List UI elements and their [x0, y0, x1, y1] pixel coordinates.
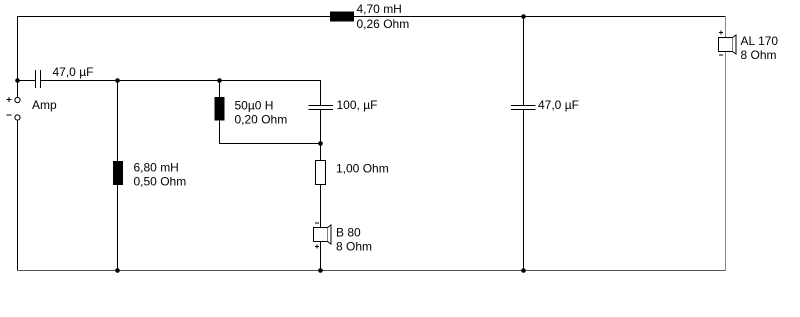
wire branch L3 (50u0 H) — [219, 80, 221, 144]
wire middle rail left of C1 — [17, 80, 36, 82]
wire middle rail right of C1 — [41, 80, 321, 82]
svg-text:47,0 µF: 47,0 µF — [53, 65, 94, 79]
speaker SP1 AL 170 — [719, 31, 737, 56]
node D junction (top rail / C3) — [521, 14, 526, 19]
wire right vertical (to AL 170) — [725, 16, 727, 271]
svg-text:6,80 mH: 6,80 mH — [134, 161, 179, 175]
svg-text:50µ0 H: 50µ0 H — [235, 99, 274, 113]
svg-text:0,20 Ohm: 0,20 Ohm — [235, 113, 288, 127]
svg-text:0,50 Ohm: 0,50 Ohm — [134, 175, 187, 189]
node C junction (L3 tap) — [217, 78, 222, 83]
inductor L3 50u0 H — [215, 97, 225, 121]
node F junction (bottom rail / L2) — [115, 268, 120, 273]
svg-text:47,0 µF: 47,0 µF — [538, 98, 579, 112]
capacitor C2 100 uF plates — [309, 105, 334, 107]
wire C3 branch lower — [523, 110, 525, 272]
inductor L1 4,70 mH — [330, 12, 354, 22]
svg-text:8 Ohm: 8 Ohm — [741, 48, 777, 62]
node G junction (bottom rail / B80) — [318, 268, 323, 273]
inductor L2 6,80 mH — [113, 161, 123, 185]
svg-text:100, µF: 100, µF — [337, 98, 378, 112]
wire branch L2 (6,80 mH) — [117, 80, 119, 271]
node E junction (sub-loop / R1) — [318, 141, 323, 146]
svg-text:0,26 Ohm: 0,26 Ohm — [357, 17, 410, 31]
svg-text:1,00 Ohm: 1,00 Ohm — [336, 161, 389, 175]
wire C2 branch upper — [320, 80, 322, 106]
wire C2 branch lower through R1 and B80 — [320, 110, 322, 272]
terminal Amp + — [7, 97, 21, 103]
wire top rail — [17, 16, 726, 18]
node B junction (L2 tap) — [115, 78, 120, 83]
svg-text:4,70 mH: 4,70 mH — [357, 2, 402, 16]
svg-text:AL 170: AL 170 — [741, 34, 779, 48]
svg-text:Amp: Amp — [32, 98, 57, 112]
svg-text:B 80: B 80 — [336, 225, 361, 239]
speaker SP2 B 80 — [314, 223, 332, 249]
node H junction (bottom rail / C3) — [521, 268, 526, 273]
capacitor C1 47,0 uF plates — [35, 70, 37, 88]
wire C3 branch upper — [523, 16, 525, 106]
wire left vertical upper (amp + to top rail) — [17, 16, 19, 98]
wire bottom rail — [17, 270, 726, 272]
node A junction (amp + / C1) — [15, 78, 20, 83]
wire left vertical lower (amp - to bottom rail) — [17, 120, 19, 271]
svg-text:8 Ohm: 8 Ohm — [336, 239, 372, 253]
capacitor C3 47,0 uF plates — [511, 105, 536, 107]
terminal Amp - — [7, 115, 21, 120]
wire sub-loop bottom — [219, 143, 321, 145]
resistor R1 1,00 Ohm — [316, 161, 326, 185]
